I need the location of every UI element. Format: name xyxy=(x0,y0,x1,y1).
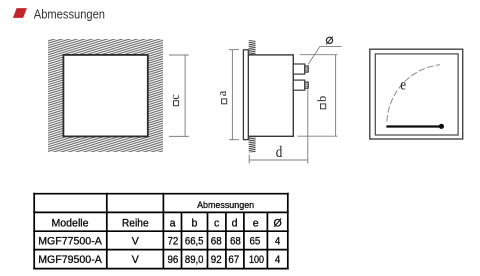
upper stud xyxy=(293,64,308,74)
label square-b xyxy=(315,96,329,109)
svg-text:b: b xyxy=(192,217,198,229)
svg-text:68: 68 xyxy=(230,236,241,247)
front flange xyxy=(243,50,248,140)
svg-text:a: a xyxy=(170,217,176,229)
diameter leader line xyxy=(308,46,342,64)
meter face inner square xyxy=(375,54,458,135)
svg-text:V: V xyxy=(132,254,140,266)
panel cutout xyxy=(63,55,147,136)
needle xyxy=(386,125,441,127)
svg-text:4: 4 xyxy=(275,255,281,266)
dimension a line xyxy=(229,50,239,140)
svg-text:72: 72 xyxy=(167,236,178,247)
table grid xyxy=(33,193,288,270)
svg-text:67: 67 xyxy=(228,255,239,266)
svg-text:96: 96 xyxy=(167,255,178,266)
svg-text:100: 100 xyxy=(249,255,265,267)
svg-text:c: c xyxy=(214,217,220,229)
svg-text:Reihe: Reihe xyxy=(122,218,149,229)
dimension d lines xyxy=(249,90,308,164)
meter body (middle drawing) xyxy=(248,55,293,136)
dimension c line xyxy=(169,55,189,136)
red parallelogram icon xyxy=(13,8,27,18)
label square-a xyxy=(215,90,229,104)
needle pivot dot xyxy=(439,124,444,129)
svg-text:66,5: 66,5 xyxy=(185,236,204,248)
dashed scale arc e xyxy=(387,65,440,122)
svg-text:d: d xyxy=(232,217,238,229)
svg-text:65: 65 xyxy=(249,236,260,247)
svg-text:Modelle: Modelle xyxy=(51,218,88,230)
svg-text:Ø: Ø xyxy=(273,218,281,230)
svg-text:V: V xyxy=(132,236,140,248)
svg-text:Abmessungen: Abmessungen xyxy=(197,200,254,210)
panel with hatched border (left drawing) xyxy=(48,39,163,152)
dimension b lines xyxy=(298,55,338,137)
svg-text:68: 68 xyxy=(211,236,222,247)
panel cross-section hatched (bottom) xyxy=(249,136,256,152)
svg-text:92: 92 xyxy=(211,255,222,266)
label square-c xyxy=(168,94,182,106)
svg-text:d: d xyxy=(276,144,283,161)
svg-text:Abmessungen: Abmessungen xyxy=(34,6,105,21)
lower stud xyxy=(293,80,308,90)
svg-text:MGF79500-A: MGF79500-A xyxy=(38,254,103,266)
svg-text:c: c xyxy=(168,94,182,100)
svg-text:a: a xyxy=(215,90,229,96)
svg-text:b: b xyxy=(315,96,329,102)
diameter symbol xyxy=(326,37,333,45)
svg-text:4: 4 xyxy=(275,236,281,247)
table text xyxy=(38,200,282,267)
panel cross-section hatched (top) xyxy=(249,40,256,54)
svg-text:MGF77500-A: MGF77500-A xyxy=(38,236,103,248)
svg-text:89,0: 89,0 xyxy=(185,255,204,267)
meter face outer square (right drawing) xyxy=(370,49,463,139)
svg-text:e: e xyxy=(253,217,259,229)
svg-text:e: e xyxy=(400,77,406,94)
